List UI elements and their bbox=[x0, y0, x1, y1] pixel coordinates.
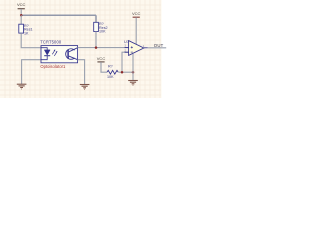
resistor R3 zigzag bbox=[107, 70, 118, 74]
node junction collector bbox=[95, 46, 98, 49]
op-amp plus mark bbox=[131, 46, 133, 48]
pin numbers bbox=[124, 44, 144, 53]
wire emitter to ground bbox=[78, 60, 85, 85]
wire LED cathode to ground bbox=[22, 60, 41, 84]
node junction at VCC rail bbox=[20, 14, 23, 17]
wire opamp V+ bbox=[135, 17, 137, 44]
LED light arrows bbox=[52, 49, 57, 56]
wire R2 bottom bbox=[95, 32, 97, 48]
sheet background bbox=[0, 0, 174, 98]
svg-text:VCC: VCC bbox=[17, 2, 26, 7]
svg-text:VCC: VCC bbox=[132, 11, 141, 16]
op-amp U1 pins bbox=[125, 48, 148, 53]
svg-text:R?: R? bbox=[108, 65, 113, 69]
power port VCC (top left) bbox=[17, 2, 26, 9]
optocoupler U1 body box bbox=[41, 46, 78, 63]
wire R1 bottom / LED anode bbox=[21, 33, 41, 48]
resistor R3 labels bbox=[107, 65, 114, 80]
LED inside optocoupler bbox=[41, 48, 50, 60]
ground (right) bbox=[128, 81, 138, 86]
resistor R2 body bbox=[94, 22, 99, 31]
svg-text:10K: 10K bbox=[107, 75, 114, 79]
svg-text:Optoisolator1: Optoisolator1 bbox=[40, 64, 66, 69]
node junction tap bbox=[121, 71, 124, 74]
resistor R1 labels bbox=[24, 24, 33, 36]
op-amp minus mark bbox=[131, 51, 133, 53]
svg-text:10K: 10K bbox=[99, 30, 106, 34]
wire R1 top bbox=[20, 15, 22, 24]
wire opamp gnd pin to ground bbox=[132, 54, 134, 81]
grid bbox=[0, 0, 161, 98]
wire top rail bbox=[21, 15, 96, 22]
svg-text:1K: 1K bbox=[24, 32, 29, 36]
svg-text:OUT: OUT bbox=[154, 43, 164, 48]
resistor R2 labels bbox=[99, 22, 108, 34]
wire output bbox=[148, 47, 166, 49]
op-amp U1 triangle bbox=[129, 41, 144, 56]
node junction opamp gnd bbox=[132, 71, 135, 74]
wire VCC stem bbox=[20, 9, 22, 15]
wire VCC to divider bbox=[101, 62, 107, 72]
phototransistor inside optocoupler bbox=[66, 48, 78, 60]
power port VCC (op-amp) bbox=[132, 11, 141, 17]
ground (middle) bbox=[80, 85, 90, 90]
wire collector to comparator bbox=[78, 47, 129, 49]
ground (left) bbox=[17, 84, 27, 89]
wire divider to gnd net bbox=[118, 71, 133, 73]
power port VCC (bottom) bbox=[97, 56, 106, 62]
svg-text:TCRT5000: TCRT5000 bbox=[40, 39, 62, 44]
svg-text:VCC: VCC bbox=[97, 56, 106, 61]
wire divider tap up to inverting input bbox=[122, 52, 128, 72]
resistor R1 body bbox=[19, 24, 24, 33]
